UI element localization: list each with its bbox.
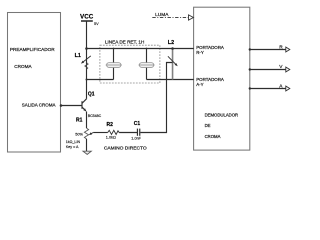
svg-text:50%: 50% <box>75 133 83 137</box>
svg-text:C1: C1 <box>134 121 141 127</box>
svg-text:R-Y: R-Y <box>196 50 204 55</box>
svg-text:CROMA: CROMA <box>14 64 32 69</box>
svg-text:5V: 5V <box>94 22 99 26</box>
svg-text:1.0kΩ: 1.0kΩ <box>106 135 116 139</box>
svg-text:A-Y: A-Y <box>196 82 203 87</box>
svg-text:VCC: VCC <box>80 13 94 20</box>
svg-text:SALIDA CROMA: SALIDA CROMA <box>22 103 56 108</box>
svg-text:CAMINO DIRECTO: CAMINO DIRECTO <box>104 145 147 151</box>
svg-text:PREAMPLIFICADOR: PREAMPLIFICADOR <box>10 47 55 52</box>
svg-text:BC548C: BC548C <box>88 114 102 118</box>
svg-text:1.0nF: 1.0nF <box>131 136 141 140</box>
svg-text:R2: R2 <box>107 122 114 128</box>
svg-text:R: R <box>279 45 283 51</box>
svg-text:LUMA: LUMA <box>155 12 169 18</box>
svg-text:DE: DE <box>205 123 211 128</box>
svg-text:DEMODULADOR: DEMODULADOR <box>205 112 239 117</box>
svg-text:R1: R1 <box>76 118 83 124</box>
svg-text:LINEA DE RET. 1H: LINEA DE RET. 1H <box>105 40 144 45</box>
svg-text:1kΩ_LIN: 1kΩ_LIN <box>66 140 81 144</box>
svg-text:L2: L2 <box>168 40 174 46</box>
svg-text:CROMA: CROMA <box>205 134 221 139</box>
svg-text:Q1: Q1 <box>88 91 95 97</box>
svg-text:L1: L1 <box>75 53 81 59</box>
svg-text:Key = A: Key = A <box>66 145 79 149</box>
